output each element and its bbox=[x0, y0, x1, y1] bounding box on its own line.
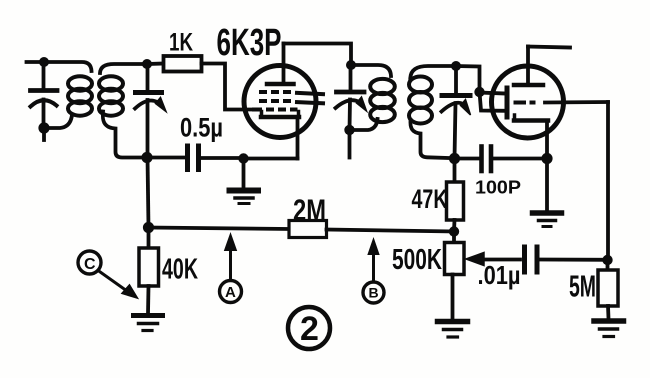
svg-text:500K: 500K bbox=[392, 244, 442, 276]
wire rail1 right bbox=[244, 157, 298, 161]
inductor L4 bbox=[409, 66, 456, 158]
wire V2 anode B+ stub bbox=[528, 47, 570, 48]
tube V1 anode bbox=[267, 44, 294, 85]
svg-text:47K: 47K bbox=[412, 184, 448, 214]
ground under rail1 bbox=[230, 159, 259, 204]
svg-text:6K3P: 6K3P bbox=[217, 22, 282, 64]
pointer arrow C bbox=[78, 251, 138, 299]
inductor L3 bbox=[350, 65, 395, 130]
resistor R6 5M bbox=[598, 260, 618, 319]
potentiometer R5 500K bbox=[445, 232, 465, 320]
variable capacitor C2 bbox=[135, 64, 166, 158]
wire 1K to grid of V1 bbox=[202, 64, 253, 110]
svg-text:0.5µ: 0.5µ bbox=[180, 113, 223, 143]
resistor R1 1K bbox=[147, 56, 202, 72]
ground under 40K bbox=[134, 316, 163, 331]
wire tank3 stub bbox=[348, 130, 352, 158]
ground under 5M bbox=[594, 321, 624, 337]
node cathode V2 bbox=[541, 153, 552, 164]
pointer arrow B bbox=[363, 239, 384, 304]
capacitor 0.5µ bbox=[188, 146, 199, 170]
tube V1 cathode bbox=[261, 112, 299, 159]
wire rail2 left segment bbox=[149, 228, 290, 230]
wire anode V1 to tank3 bbox=[284, 44, 352, 66]
tube V2 anode bbox=[514, 47, 543, 86]
ground under 500K bbox=[438, 322, 468, 338]
variable capacitor C4 bbox=[442, 66, 471, 159]
wire rail2 right segment bbox=[327, 230, 455, 232]
node tank4 top bbox=[451, 61, 461, 71]
svg-text:100P: 100P bbox=[475, 177, 521, 198]
wire tank4 to grid junction bbox=[456, 66, 480, 92]
svg-text:B: B bbox=[369, 285, 379, 301]
wire V2 grid lead right bbox=[545, 100, 608, 104]
node grid junction V2 bbox=[474, 87, 484, 97]
svg-text:5M: 5M bbox=[569, 269, 596, 304]
tube V1 grid rows bbox=[252, 92, 325, 110]
potentiometer wiper arrow bbox=[466, 253, 520, 266]
wire rail1 left bbox=[148, 156, 185, 160]
node rail2 left bbox=[143, 222, 154, 233]
svg-text:A: A bbox=[225, 284, 236, 301]
tube V2 grid bbox=[514, 101, 536, 105]
resistor R3 2M bbox=[289, 221, 327, 238]
wire bottom stub bbox=[42, 128, 46, 140]
node tank4 bottom bbox=[449, 153, 460, 164]
wire L1 bottom bbox=[44, 115, 72, 128]
variable capacitor C3 bbox=[336, 65, 367, 130]
figure number 2 bbox=[288, 307, 330, 349]
svg-text:.01µ: .01µ bbox=[478, 260, 521, 290]
node tank3 bottom bbox=[344, 125, 354, 135]
node rail1 ground junction bbox=[238, 153, 248, 163]
node tank2 top bbox=[142, 59, 152, 69]
capacitor .01µ bbox=[525, 247, 608, 272]
node tank2 bottom bbox=[141, 152, 152, 163]
node rail2 right bbox=[449, 226, 459, 236]
svg-text:2: 2 bbox=[300, 310, 319, 348]
resistor R2 47K bbox=[447, 159, 464, 232]
svg-text:1K: 1K bbox=[169, 29, 193, 57]
wire grid branch upper with pin bar bbox=[480, 88, 508, 100]
node tank3 top bbox=[346, 60, 356, 70]
svg-text:40K: 40K bbox=[162, 254, 198, 286]
wire grid branch lower with pin bar bbox=[480, 92, 508, 117]
tube V1 6K3P envelope bbox=[244, 66, 316, 138]
svg-text:C: C bbox=[84, 256, 96, 273]
variable capacitor C1 bbox=[31, 62, 58, 128]
ground under V2 cathode bbox=[533, 159, 562, 227]
wire riser right from V2 grid bbox=[606, 102, 610, 260]
node wiper junction bbox=[602, 255, 612, 265]
node antenna bottom bbox=[38, 122, 49, 133]
node antenna top bbox=[39, 57, 49, 67]
pointer arrow A bbox=[220, 234, 242, 303]
wire rail1 mid bbox=[202, 156, 244, 160]
inductor L2 bbox=[99, 64, 147, 158]
inductor L1 bbox=[68, 76, 92, 115]
svg-text:2M: 2M bbox=[293, 193, 326, 228]
tube V2 envelope bbox=[492, 66, 564, 138]
resistor R4 40K bbox=[139, 228, 159, 315]
capacitor 100P bbox=[455, 147, 548, 172]
wire antenna top stub and L1 top bbox=[27, 62, 92, 71]
wire riser left rail2 bbox=[148, 158, 149, 228]
tube V2 cathode bbox=[514, 115, 548, 159]
